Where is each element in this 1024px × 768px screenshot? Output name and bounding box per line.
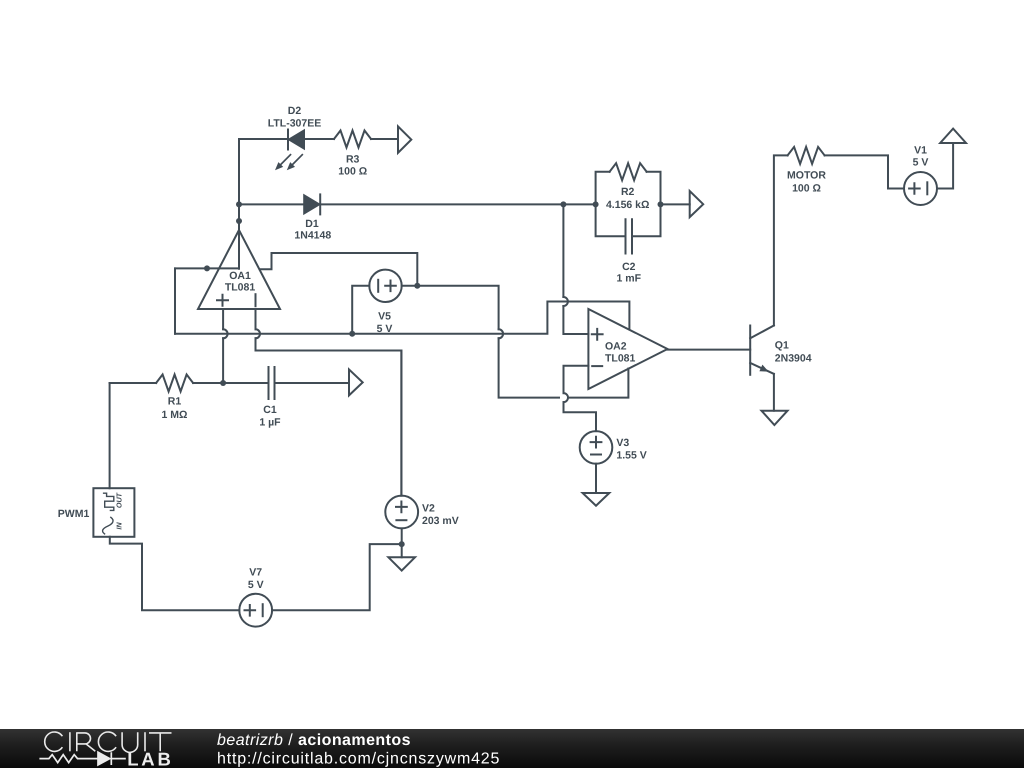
svg-text:5 V: 5 V xyxy=(248,579,264,591)
wire R1 down to PWM1 xyxy=(109,383,111,488)
port flag after R2 xyxy=(690,191,704,217)
bottom bar background xyxy=(0,729,1024,768)
svg-text:OUT: OUT xyxy=(115,492,124,508)
svg-text:http://circuitlab.com/cjncnszy: http://circuitlab.com/cjncnszywm425 xyxy=(217,751,500,768)
wire Q1 emitter down xyxy=(773,374,775,411)
hop plus-feed over top rail xyxy=(563,297,568,306)
CircuitLab logo LAB xyxy=(127,749,173,768)
label V5 xyxy=(377,310,393,335)
node dot R2 right rail xyxy=(658,201,664,207)
wire V1 right up xyxy=(937,143,953,189)
OA1 power stub left xyxy=(175,267,239,269)
port flag after R3 xyxy=(398,126,411,152)
transistor Q1 xyxy=(750,326,774,375)
svg-text:D1: D1 xyxy=(305,218,319,230)
svg-text:1.55 V: 1.55 V xyxy=(616,449,646,461)
wire V5 left xyxy=(352,286,369,334)
svg-text:MOTOR: MOTOR xyxy=(787,170,826,182)
wire vertical from D2 corner to OA1 xyxy=(238,139,240,269)
wire V3 bottom xyxy=(595,464,597,493)
svg-text:C2: C2 xyxy=(622,261,636,273)
label R3 xyxy=(338,153,367,177)
svg-text:5 V: 5 V xyxy=(377,323,393,335)
svg-text:D2: D2 xyxy=(288,105,302,117)
label R2 xyxy=(606,186,649,211)
svg-text:V2: V2 xyxy=(422,503,435,515)
node dot OA1 left power pin xyxy=(204,265,210,271)
svg-text:beatrizrb / acionamentos: beatrizrb / acionamentos xyxy=(217,732,411,749)
OA1 plus input pin wire xyxy=(222,309,224,383)
R2/C2 parallel box rails xyxy=(596,172,661,237)
ground below Q1 xyxy=(762,411,788,425)
svg-text:TL081: TL081 xyxy=(225,282,256,294)
node dot R2 left rail xyxy=(593,201,599,207)
OA1 minus input pin wire xyxy=(256,309,402,496)
svg-text:PWM1: PWM1 xyxy=(58,508,90,520)
wire R1 row xyxy=(110,382,349,384)
wire D2 top run xyxy=(239,138,398,140)
voltage source V2 xyxy=(385,496,418,529)
svg-text:203 mV: 203 mV xyxy=(422,515,459,527)
op-amp OA1 (points up) xyxy=(198,230,280,309)
diode D1 xyxy=(304,194,320,214)
svg-text:4.156 kΩ: 4.156 kΩ xyxy=(606,199,649,211)
wire V7 right to V2 ground xyxy=(272,544,402,610)
svg-text:C1: C1 xyxy=(263,404,277,416)
svg-text:V3: V3 xyxy=(616,437,629,449)
resistor R2 xyxy=(610,163,647,180)
label PWM1 xyxy=(58,508,90,520)
svg-text:OA1: OA1 xyxy=(229,270,251,282)
wire OA1 left loop down xyxy=(174,268,176,333)
hop V5-right over rail xyxy=(499,329,504,338)
voltage source V1 xyxy=(904,172,937,205)
wire OA2 output to Q1 xyxy=(668,349,751,351)
wire PWM1 bottom to V7 xyxy=(110,537,240,610)
port flag after C1 xyxy=(349,369,363,395)
wire V2 bottom xyxy=(401,528,403,557)
node dot at D1 junction xyxy=(236,201,242,207)
label D1 xyxy=(294,218,331,241)
wire long horizontal rail y=333.8 xyxy=(175,302,629,334)
label D2 xyxy=(268,105,321,129)
node dot V2 ground junction xyxy=(399,541,405,547)
label Q1 xyxy=(775,340,812,365)
voltage source V3 xyxy=(580,431,613,464)
op-amp OA2 (points right) xyxy=(588,309,667,389)
svg-text:1 mF: 1 mF xyxy=(617,272,642,284)
wire V5 right to OA2 rail xyxy=(402,286,629,398)
label V7 xyxy=(248,567,264,592)
svg-text:OA2: OA2 xyxy=(605,340,627,352)
svg-text:1N4148: 1N4148 xyxy=(294,230,331,242)
label V3 xyxy=(616,437,646,461)
svg-text:TL081: TL081 xyxy=(605,352,636,364)
wire R2 tap down to OA2 plus xyxy=(563,204,588,334)
label C2 xyxy=(617,261,642,285)
svg-text:1 MΩ: 1 MΩ xyxy=(162,409,188,421)
label MOTOR xyxy=(787,170,826,195)
hop OA1 plus pin xyxy=(223,329,228,338)
label V2 xyxy=(422,503,459,527)
svg-text:R1: R1 xyxy=(168,396,182,408)
CircuitLab logo CIRCUIT xyxy=(45,732,172,752)
power flag above V1 xyxy=(940,129,966,143)
OA2 minus input wire to V3 xyxy=(564,366,597,431)
label IN (rotated) xyxy=(115,522,124,530)
resistor R1 xyxy=(156,375,193,392)
voltage source V5 xyxy=(369,270,401,302)
svg-text:LTL-307EE: LTL-307EE xyxy=(268,117,321,129)
label OA1 xyxy=(225,270,256,294)
label V1 xyxy=(913,145,929,169)
node dot R1 output junction xyxy=(220,380,226,386)
wire D1 row xyxy=(239,203,596,205)
svg-text:V5: V5 xyxy=(378,310,391,322)
LED D2 xyxy=(275,130,304,171)
hop OA1 minus pin xyxy=(256,329,261,338)
capacitor C1 xyxy=(269,367,275,399)
svg-text:100 Ω: 100 Ω xyxy=(792,182,821,194)
wire Q1 collector to MOTOR xyxy=(774,155,904,325)
wire V2 top xyxy=(400,351,402,496)
svg-text:R2: R2 xyxy=(621,186,635,198)
voltage source V7 xyxy=(239,594,272,627)
capacitor C2 xyxy=(626,219,633,253)
svg-text:5 V: 5 V xyxy=(913,157,929,169)
PWM source PWM1 xyxy=(93,488,134,537)
node dot at OA1 output pin xyxy=(236,218,242,224)
footer title line xyxy=(217,732,411,749)
svg-text:V1: V1 xyxy=(914,145,927,157)
node dot R2 left tap xyxy=(560,201,566,207)
svg-text:1 µF: 1 µF xyxy=(259,416,281,428)
label OA2 xyxy=(605,340,636,364)
hop minus-feed over bottom rail xyxy=(564,393,569,402)
ground below V2 xyxy=(388,557,415,570)
label R1 xyxy=(162,396,188,421)
footer url line xyxy=(217,751,500,768)
OA1 power stub right xyxy=(260,253,418,286)
svg-text:100 Ω: 100 Ω xyxy=(338,166,367,178)
svg-text:V7: V7 xyxy=(249,567,262,579)
svg-text:2N3904: 2N3904 xyxy=(775,352,812,364)
svg-text:R3: R3 xyxy=(346,153,360,165)
svg-text:IN: IN xyxy=(115,522,124,530)
svg-text:LAB: LAB xyxy=(127,749,173,768)
svg-text:Q1: Q1 xyxy=(775,340,789,352)
ground below V3 xyxy=(583,493,610,506)
node dot V5 plus junction xyxy=(414,283,420,289)
CircuitLab logo doodle xyxy=(39,752,125,765)
node dot V5 minus junction xyxy=(349,331,355,337)
resistor R3 xyxy=(334,131,371,148)
label C1 xyxy=(259,404,281,429)
resistor MOTOR xyxy=(788,147,825,164)
label OUT (rotated) xyxy=(115,492,124,508)
wire R2 right to port xyxy=(661,203,690,205)
